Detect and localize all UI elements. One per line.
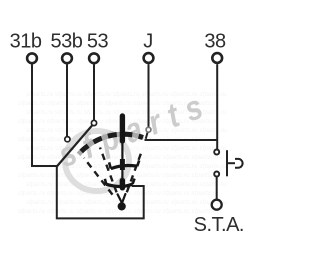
svg-text:31b: 31b xyxy=(10,31,42,53)
svg-text:J: J xyxy=(143,31,153,53)
svg-text:sfparts.ru sfparts.ru sfparts.: sfparts.ru sfparts.ru sfparts.ru sfparts… xyxy=(18,208,219,215)
svg-text:S.T.A.: S.T.A. xyxy=(194,214,244,236)
svg-text:53: 53 xyxy=(87,31,109,53)
svg-text:38: 38 xyxy=(204,31,226,53)
svg-text:sfparts.ru sfparts.ru sfparts.: sfparts.ru sfparts.ru sfparts.ru sfparts… xyxy=(18,172,219,179)
svg-text:53b: 53b xyxy=(50,31,82,53)
